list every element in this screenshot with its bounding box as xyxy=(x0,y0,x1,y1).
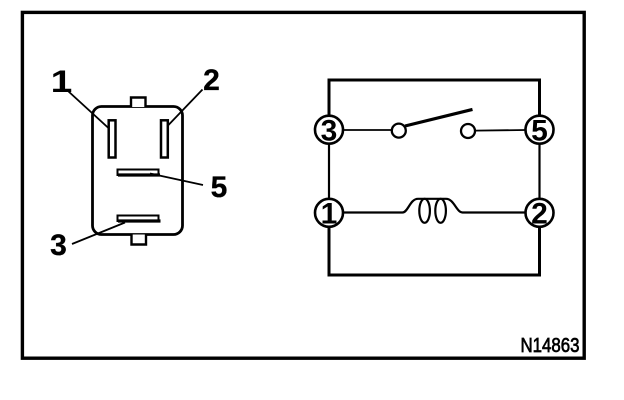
svg-text:3: 3 xyxy=(50,229,67,262)
svg-text:2: 2 xyxy=(531,198,548,231)
svg-text:5: 5 xyxy=(531,115,548,148)
svg-text:1: 1 xyxy=(51,63,73,99)
svg-text:2: 2 xyxy=(203,64,220,97)
svg-text:5: 5 xyxy=(211,171,228,204)
svg-text:1: 1 xyxy=(321,198,338,231)
svg-text:N14863: N14863 xyxy=(521,335,580,357)
svg-text:3: 3 xyxy=(321,115,338,148)
